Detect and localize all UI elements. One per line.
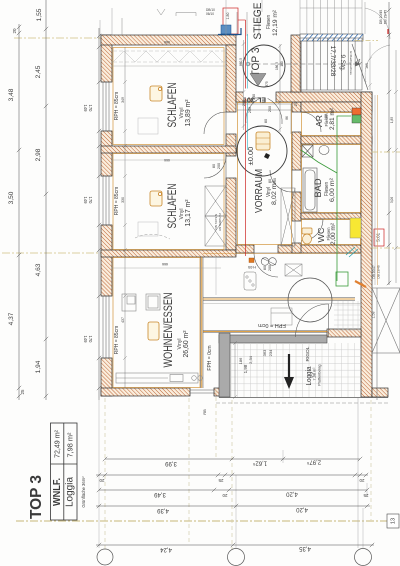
door arc terrace xyxy=(296,304,329,337)
extension lines above building xyxy=(100,0,262,35)
svg-text:186: 186 xyxy=(238,357,243,364)
window bottom wall xyxy=(190,388,214,396)
svg-text:3,50: 3,50 xyxy=(8,191,15,204)
door arc ar xyxy=(301,112,321,132)
wall ar south xyxy=(301,136,372,144)
vorraum small dims xyxy=(212,94,328,271)
circle top3 xyxy=(243,45,285,87)
svg-text:170: 170 xyxy=(88,336,93,344)
svg-text:13: 13 xyxy=(391,518,397,524)
svg-text:1,62⁵: 1,62⁵ xyxy=(252,460,267,467)
room label schlafen2 xyxy=(167,184,192,229)
orange bar xyxy=(355,281,366,287)
svg-text:1.80: 1.80 xyxy=(226,13,230,20)
svg-text:7,98 m²: 7,98 m² xyxy=(68,432,75,458)
svg-text:E=Dachgeschoss: E=Dachgeschoss xyxy=(349,51,353,75)
armchair wohnen xyxy=(148,322,159,340)
svg-text:80: 80 xyxy=(263,266,267,270)
door arc room2 xyxy=(204,156,226,178)
top misc lines xyxy=(122,9,196,35)
svg-text:RB: RB xyxy=(202,409,207,415)
svg-text:SCHLAFEN: SCHLAFEN xyxy=(167,184,179,229)
svg-text:170: 170 xyxy=(88,105,93,113)
extension lines bottom xyxy=(99,398,367,548)
shaft ar orange xyxy=(352,115,361,123)
svg-text:149: 149 xyxy=(83,197,88,205)
svg-text:RPH = 85cm: RPH = 85cm xyxy=(114,92,120,120)
wall terrace south stub xyxy=(327,329,361,337)
svg-text:86: 86 xyxy=(285,116,289,120)
loggia tile grid xyxy=(231,343,361,397)
svg-text:26,60 m²: 26,60 m² xyxy=(183,330,190,358)
svg-text:130: 130 xyxy=(252,94,256,100)
svg-text:Plattenbelag: Plattenbelag xyxy=(318,364,322,385)
cabinet east wing xyxy=(285,264,302,276)
svg-text:DB 29/46: DB 29/46 xyxy=(377,265,381,279)
door arc wohnen xyxy=(254,253,278,277)
svg-text:2,00 m²: 2,00 m² xyxy=(331,223,337,245)
table top3 xyxy=(51,423,78,520)
svg-text:6,00 m²: 6,00 m² xyxy=(329,177,336,202)
x void right xyxy=(372,288,400,400)
svg-text:200: 200 xyxy=(268,265,272,271)
svg-text:330: 330 xyxy=(121,197,125,203)
svg-text:200: 200 xyxy=(268,106,272,112)
svg-text:RPH = 85cm: RPH = 85cm xyxy=(114,326,120,354)
svg-text:363: 363 xyxy=(262,349,267,356)
room label stiege xyxy=(252,3,279,40)
bottom dim line 5 xyxy=(96,543,374,547)
svg-text:DB 20/47: DB 20/47 xyxy=(372,265,376,279)
svg-text:149: 149 xyxy=(83,336,88,344)
svg-text:13,89 m²: 13,89 m² xyxy=(185,99,192,127)
left dim chain A xyxy=(17,24,21,400)
stair cut line xyxy=(352,44,368,90)
svg-text:DB 20/45: DB 20/45 xyxy=(379,10,383,24)
svg-text:4,39: 4,39 xyxy=(157,507,169,513)
kitchen counter xyxy=(116,373,198,383)
svg-text:234: 234 xyxy=(268,349,273,356)
svg-text:9 Stg.: 9 Stg. xyxy=(339,55,346,72)
dining table xyxy=(146,294,160,310)
shaft ar green xyxy=(352,108,361,115)
svg-text:180: 180 xyxy=(280,61,284,67)
red electric cluster top xyxy=(206,8,241,35)
orange room inner boundaries xyxy=(113,48,361,388)
room label bad xyxy=(313,177,336,202)
svg-text:WOHNEN/ESSEN: WOHNEN/ESSEN xyxy=(163,293,175,368)
svg-text:4,63: 4,63 xyxy=(35,263,42,276)
cabinet vorraum east xyxy=(281,188,295,246)
svg-text:H:05: H:05 xyxy=(248,265,256,269)
axis bubbles xyxy=(97,549,372,566)
svg-text:4,35: 4,35 xyxy=(299,545,311,551)
svg-text:FPH = 0cm: FPH = 0cm xyxy=(207,345,213,370)
wall vorraum-bad vertical xyxy=(292,102,301,112)
svg-text:349: 349 xyxy=(121,97,125,103)
bed schlafen2 xyxy=(150,191,162,206)
bottom dim line 3 xyxy=(97,488,369,492)
left dim chain B xyxy=(44,0,48,400)
loggia labels xyxy=(305,346,322,385)
loggia dim line xyxy=(233,341,237,399)
svg-text:200: 200 xyxy=(217,163,221,169)
el30 xyxy=(243,89,270,99)
garderobe xyxy=(244,272,256,290)
svg-text:RPH = 85cm: RPH = 85cm xyxy=(114,187,120,215)
stair walk line xyxy=(246,62,356,66)
bottom dashed extension lines xyxy=(357,398,359,548)
svg-text:3,49: 3,49 xyxy=(154,491,166,497)
bottom dim line 2 xyxy=(96,473,368,477)
svg-text:20: 20 xyxy=(359,478,365,483)
svg-text:4,20: 4,20 xyxy=(296,506,308,512)
bed schlafen1 xyxy=(150,86,162,101)
svg-text:VORRAUM: VORRAUM xyxy=(254,169,265,213)
svg-text:437: 437 xyxy=(121,317,125,323)
svg-text:2,34: 2,34 xyxy=(248,355,253,364)
svg-text:4,37: 4,37 xyxy=(8,312,15,325)
svg-text:1,98: 1,98 xyxy=(243,364,248,373)
arrow loggia xyxy=(284,354,294,389)
svg-text:TOP 3: TOP 3 xyxy=(250,48,262,77)
svg-text:200: 200 xyxy=(248,107,252,113)
neighbour sliver lines right xyxy=(374,95,376,285)
loggia bottom edge xyxy=(219,397,388,399)
bottom dim line 1 xyxy=(103,457,362,461)
right dim chain xyxy=(387,2,391,285)
door arc room1 xyxy=(204,97,329,337)
green shape east wing xyxy=(336,272,348,286)
svg-text:20: 20 xyxy=(99,478,105,483)
red line vertical xyxy=(245,20,247,256)
cyan line vertical xyxy=(247,34,249,150)
window left wall 3 xyxy=(102,296,104,358)
svg-text:666: 666 xyxy=(164,40,170,44)
stair top black band xyxy=(300,34,363,41)
svg-text:1,94: 1,94 xyxy=(35,360,42,373)
svg-text:2,97⁵: 2,97⁵ xyxy=(306,459,321,466)
window left wall 2 xyxy=(102,176,104,225)
wall right exterior xyxy=(361,92,372,397)
room label ar xyxy=(315,108,336,130)
shaft wc yellow xyxy=(350,218,361,238)
svg-text:200: 200 xyxy=(273,178,277,184)
svg-text:13,17 m²: 13,17 m² xyxy=(185,199,192,227)
circle level marker xyxy=(237,126,287,176)
loggia parapet gray xyxy=(219,333,327,397)
svg-text:100: 100 xyxy=(324,114,328,120)
wall between schlafen1-2 xyxy=(101,146,236,153)
svg-text:EL:30: EL:30 xyxy=(247,96,266,103)
arcs neighbour right xyxy=(365,2,390,90)
wall bad-wc xyxy=(301,213,361,219)
door arc bad xyxy=(270,170,292,192)
room label vorraum xyxy=(254,169,278,213)
door arc entrance xyxy=(246,97,264,123)
door arc wc xyxy=(301,219,323,241)
svg-text:S:01: S:01 xyxy=(376,232,381,242)
svg-text:3,06: 3,06 xyxy=(390,197,394,203)
svg-text:4,20: 4,20 xyxy=(286,491,298,497)
wall bottom-right block xyxy=(372,388,388,397)
bad washbasin xyxy=(302,145,313,157)
svg-text:TOP 3: TOP 3 xyxy=(28,475,45,519)
svg-text:BAD: BAD xyxy=(313,178,324,197)
svg-text:20: 20 xyxy=(222,493,228,498)
blue hatch wc xyxy=(346,247,358,257)
svg-text:186,5: 186,5 xyxy=(275,62,279,70)
terrace tile grid xyxy=(334,301,361,331)
svg-text:165: 165 xyxy=(365,63,369,69)
window dims xyxy=(83,105,93,344)
svg-text:DB 29/45: DB 29/45 xyxy=(384,10,388,24)
svg-text:WNLF.: WNLF. xyxy=(52,478,63,506)
svg-text:170: 170 xyxy=(88,197,93,205)
landing rails xyxy=(237,12,259,36)
svg-text:205: 205 xyxy=(242,100,246,106)
wall corridor south xyxy=(236,245,254,253)
svg-text:80: 80 xyxy=(264,119,268,123)
vorraum dim lines xyxy=(237,40,292,134)
green conduit xyxy=(337,116,351,281)
wall stair-apartment xyxy=(236,92,252,102)
glass front wohnen-east vertical xyxy=(201,257,204,388)
svg-text:RIGOL: RIGOL xyxy=(305,346,311,361)
svg-text:WC: WC xyxy=(316,228,326,243)
beam zigzag room1 xyxy=(113,51,226,62)
svg-text:375: 375 xyxy=(265,81,269,87)
svg-text:20: 20 xyxy=(12,28,17,34)
wc toilet tan xyxy=(302,228,312,244)
svg-text:17,7/33/28: 17,7/33/28 xyxy=(329,46,336,77)
dresser room1 xyxy=(138,118,158,134)
svg-text:80: 80 xyxy=(268,179,272,183)
svg-text:Loggia: Loggia xyxy=(65,477,76,507)
svg-text:12,19 m²: 12,19 m² xyxy=(272,9,279,36)
svg-text:1,85: 1,85 xyxy=(390,117,394,123)
svg-text:72,49 m²: 72,49 m² xyxy=(55,429,62,458)
triangle top3 marker xyxy=(250,74,266,87)
svg-text:25: 25 xyxy=(218,478,224,483)
label S01 red xyxy=(374,229,384,246)
svg-text:1,55: 1,55 xyxy=(36,8,43,21)
room label wc xyxy=(316,223,337,245)
svg-text:3,99: 3,99 xyxy=(165,460,177,466)
bad bathtub xyxy=(302,145,329,212)
svg-text:3,48: 3,48 xyxy=(8,88,15,101)
svg-text:06/10: 06/10 xyxy=(206,12,214,16)
svg-text:666: 666 xyxy=(162,262,168,266)
cabinet in vorraum xyxy=(256,132,270,150)
orange square h05 xyxy=(249,258,254,263)
window left wall 1 xyxy=(101,82,112,358)
svg-text:FPH = 0cm: FPH = 0cm xyxy=(258,322,286,328)
svg-text:25: 25 xyxy=(363,493,369,498)
room interior dim lines xyxy=(113,66,225,268)
svg-text:2,81 m²: 2,81 m² xyxy=(330,108,336,130)
svg-text:860,5: 860,5 xyxy=(239,58,243,66)
room label wohnenessen xyxy=(163,293,190,368)
wall bottom exterior xyxy=(101,388,190,396)
axis box 13 xyxy=(387,514,399,528)
left dim chain C xyxy=(97,28,101,400)
stair treads xyxy=(300,38,362,90)
svg-text:2,45: 2,45 xyxy=(35,65,42,78)
svg-text:UNTERPUTZ: UNTERPUTZ xyxy=(218,213,222,231)
svg-text:80: 80 xyxy=(212,164,216,168)
interior dim line rooms xyxy=(123,47,127,388)
svg-text:25: 25 xyxy=(294,102,298,106)
bottom dim line 4 xyxy=(96,504,370,508)
wall top exterior xyxy=(101,35,236,45)
sofa wohnen xyxy=(116,294,202,383)
table east wing xyxy=(271,308,292,325)
svg-text:25: 25 xyxy=(20,389,25,395)
svg-text:AR: AR xyxy=(315,115,324,127)
loggia dims xyxy=(238,349,273,373)
wall between schlafen2-wohnen xyxy=(101,250,236,257)
svg-text:SCHLAFEN: SCHLAFEN xyxy=(167,83,179,128)
svg-text:2,98: 2,98 xyxy=(35,148,42,161)
svg-text:Grünfläche 36m²: Grünfläche 36m² xyxy=(81,476,86,508)
wardrobe dashes room2 xyxy=(135,234,170,239)
wardrobe x-boxes room2 xyxy=(203,186,361,295)
svg-text:149: 149 xyxy=(83,105,88,113)
stair upper flight xyxy=(300,0,362,34)
lamp circles xyxy=(261,258,269,266)
wall left exterior xyxy=(101,35,388,397)
glass front terrace horizontal xyxy=(203,298,355,301)
glass front south horizontal xyxy=(203,331,327,333)
wall rooms-vorraum vertical xyxy=(226,45,236,112)
room label schlafen1 xyxy=(167,83,192,128)
svg-text:7,98 m²: 7,98 m² xyxy=(313,367,317,381)
big circle east wing xyxy=(288,278,332,322)
svg-text:4,24: 4,24 xyxy=(160,546,172,552)
right chain 2 xyxy=(394,50,398,283)
